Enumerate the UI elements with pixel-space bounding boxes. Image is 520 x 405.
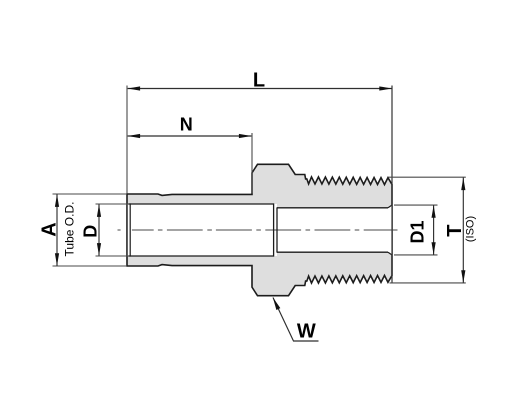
dimension line N [128,135,252,137]
svg-text:T: T [444,225,466,237]
svg-text:A: A [39,222,61,236]
svg-text:L: L [253,70,265,92]
arrowhead A bottom [55,253,59,265]
extension line D1 bottom [394,254,438,256]
extension line D1 top [394,204,438,206]
dimension line L [128,88,392,90]
arrowhead D top [97,204,101,217]
svg-text:D1: D1 [408,220,428,243]
svg-text:N: N [180,115,193,135]
svg-text:(ISO): (ISO) [465,216,477,242]
arrowhead N right [239,134,252,138]
arrowhead A top [55,194,59,207]
extension line right (L at threaded end face) [391,86,393,284]
svg-text:W: W [297,321,316,343]
svg-text:Tube O.D.: Tube O.D. [63,202,77,257]
arrowhead N left [128,134,141,138]
arrowhead W leader [273,297,281,310]
arrowhead D1 bottom [432,242,436,255]
bore step line inner [276,207,278,252]
leader line W [273,298,319,342]
dimension line T [462,178,464,283]
fitting body outline (tube stub, hex, NPT threaded end) [127,164,392,295]
dimension line A [56,194,58,266]
extension line A top [53,193,127,195]
bore line D bottom [128,255,274,257]
extension line N (hex face) [251,133,253,194]
arrowhead D1 top [432,205,436,218]
bore line D1 top [277,207,388,209]
extension line T top (thread crest) [389,176,466,178]
svg-text:D: D [81,225,101,238]
bore mouth chamfer top [388,205,392,208]
extension line left (L/N at tube end) [126,86,128,194]
bore line D top [128,203,274,205]
bore line D1 bottom [277,251,388,253]
arrowhead T top [461,178,465,191]
extension line D top [96,203,130,205]
dimension line D [98,204,100,256]
bore step line (tube seat) [273,203,275,256]
extension line T bottom (thread crest) [390,282,466,284]
bore interior (white) [128,204,392,256]
arrowhead D bottom [97,243,101,256]
bore mouth chamfer bottom [388,252,392,255]
dimension line D1 [433,205,435,255]
arrowhead L right [379,86,392,90]
arrowhead L left [128,86,141,90]
extension line A bottom [53,265,127,267]
extension line D bottom [96,255,130,257]
centerline (dash-dot axis) [118,229,398,231]
tube-end entry chamfer line [129,203,131,256]
arrowhead T bottom [461,270,465,283]
